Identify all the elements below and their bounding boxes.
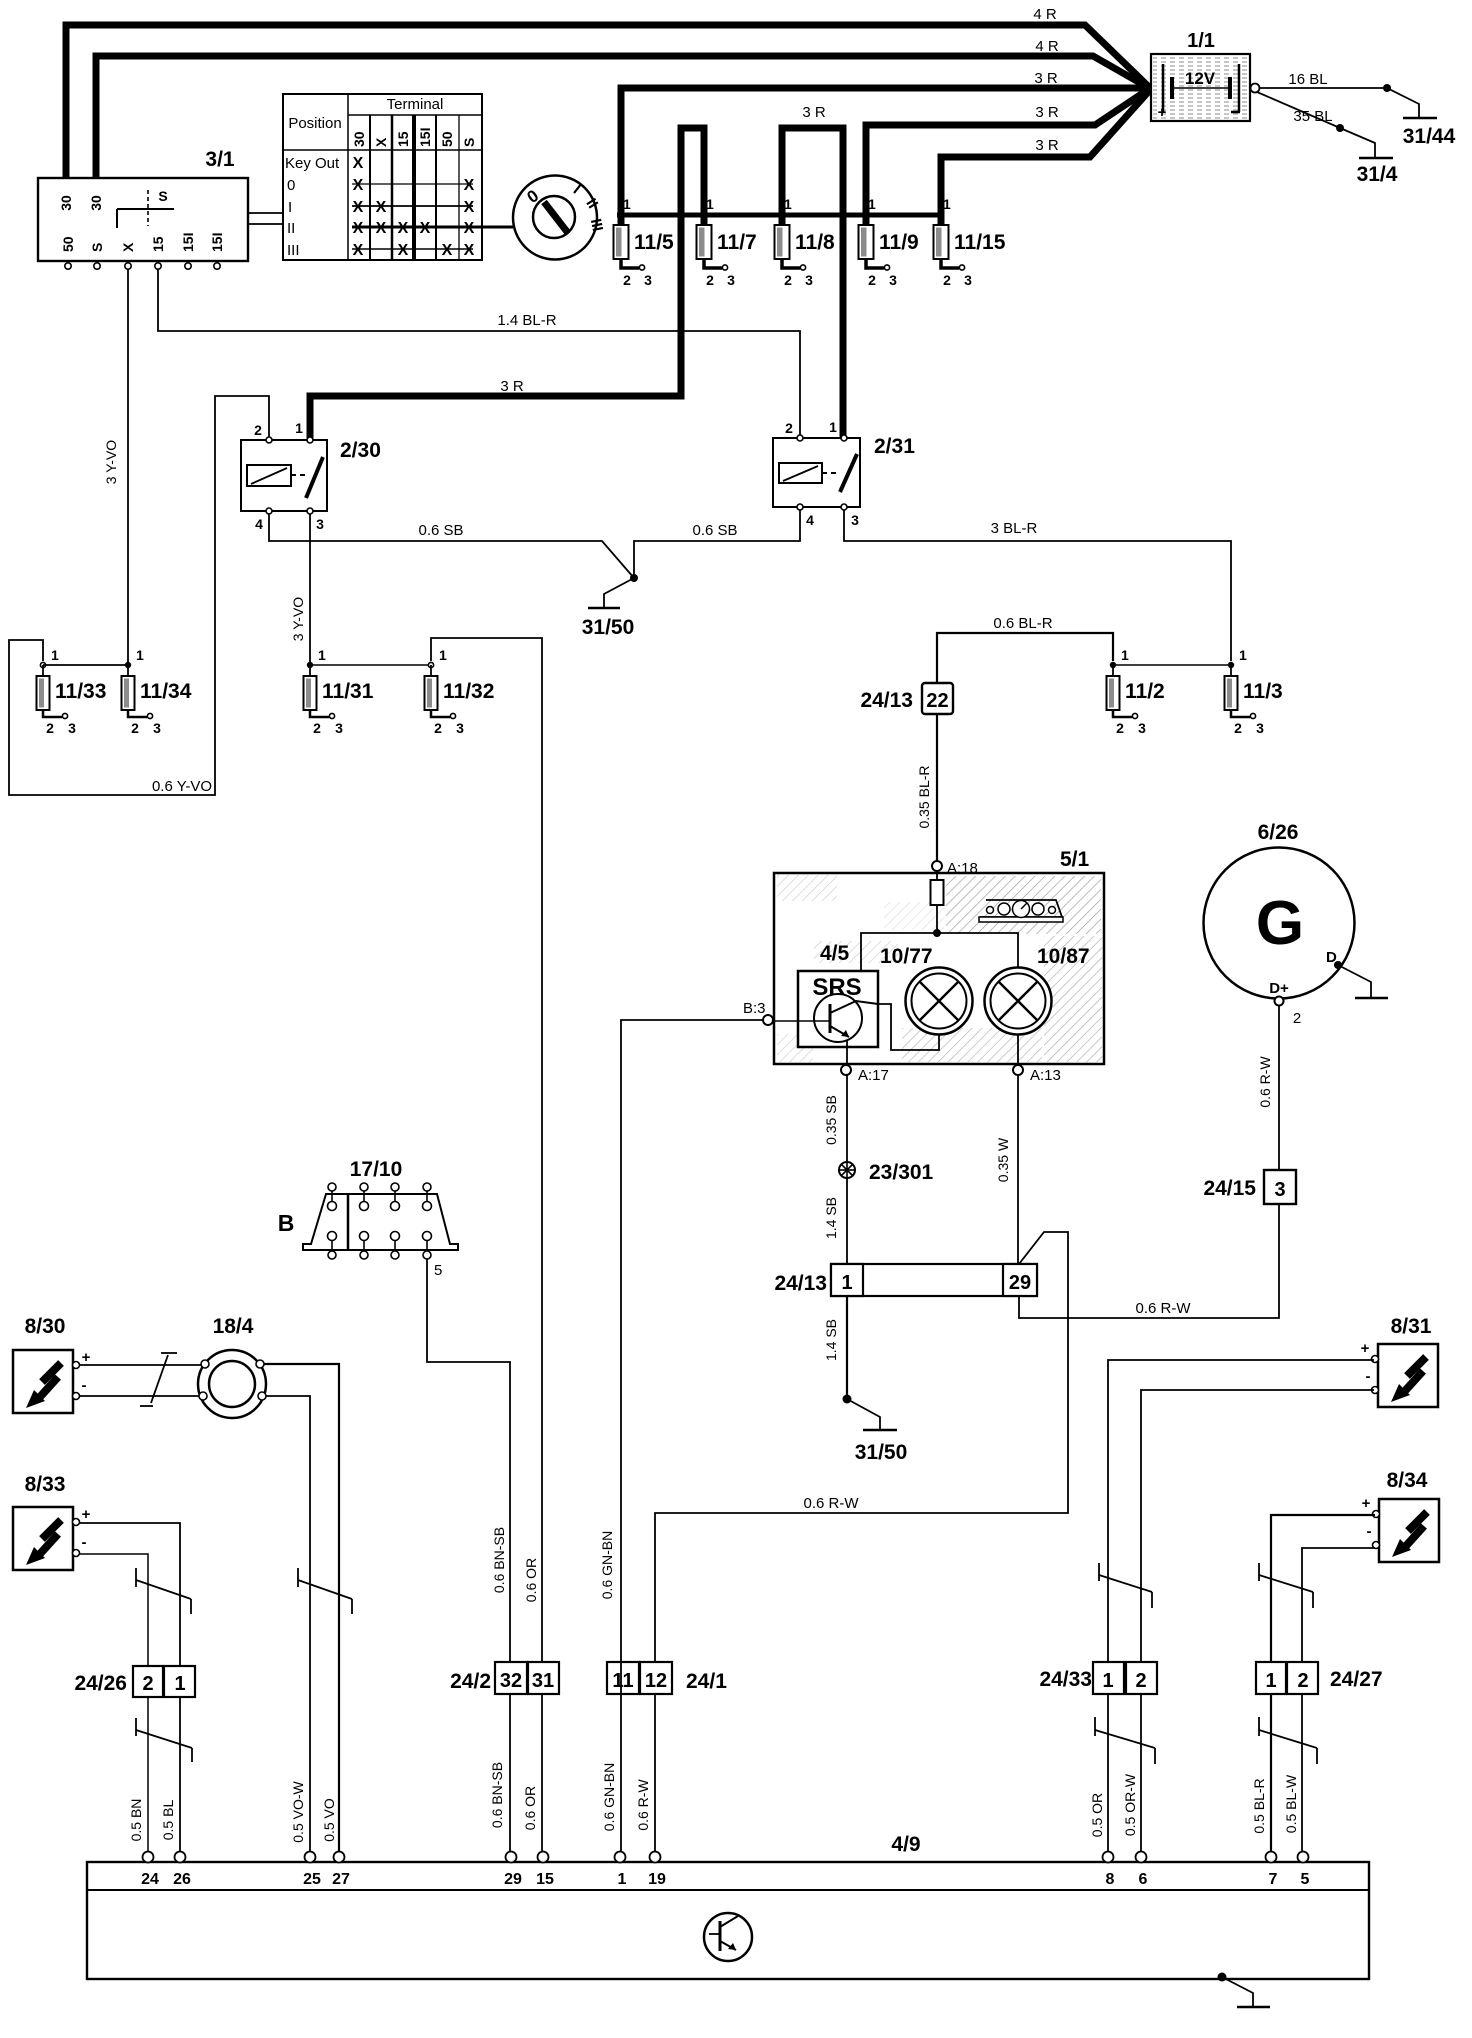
svg-text:1.4 BL-R: 1.4 BL-R (497, 312, 556, 329)
svg-text:X: X (464, 199, 475, 216)
svg-text:2: 2 (785, 420, 793, 436)
wire 1.4 BL-R from ignition terminal 15 to relay 2/31 pin 2 (158, 269, 800, 435)
wire from junction to lamp 10/87 (937, 933, 1018, 967)
pin 6 of 4/9 (1136, 1852, 1148, 1889)
flasher lamp 8/34 (1362, 1469, 1439, 1562)
generator 6/26 (1204, 821, 1355, 999)
svg-text:X: X (353, 177, 364, 194)
svg-text:1: 1 (136, 647, 144, 663)
node junction 35BL (1336, 124, 1344, 132)
svg-text:11/7: 11/7 (717, 231, 757, 254)
svg-text:3: 3 (1256, 720, 1264, 736)
svg-text:29: 29 (504, 1871, 522, 1888)
svg-text:2: 2 (313, 720, 321, 736)
wire joining fuse 11/2 pin1 and 11/3 pin1 (1113, 664, 1231, 666)
svg-text:24/13: 24/13 (774, 1272, 827, 1295)
svg-text:4/9: 4/9 (891, 1833, 920, 1856)
svg-text:X: X (353, 242, 364, 259)
svg-text:0.5 BL: 0.5 BL (160, 1800, 176, 1841)
svg-text:S: S (158, 188, 167, 204)
fuse 11/3 (1225, 647, 1283, 736)
wire 3 BL-R from relay 2/31 pin 3 to fuse 11/3 pin 1 (844, 510, 1231, 661)
wire 1.4 SB from splice 23/301 to connector 24/13 pin 1 (823, 1178, 847, 1264)
svg-text:31/50: 31/50 (582, 616, 635, 639)
ground 31/44 (1387, 88, 1456, 148)
motor 18/4 (siren) (198, 1315, 266, 1418)
ground at 4/9 (1222, 1977, 1270, 2007)
svg-text:0.5 BL-W: 0.5 BL-W (1283, 1774, 1299, 1833)
svg-text:24/27: 24/27 (1330, 1668, 1383, 1691)
svg-text:11/34: 11/34 (140, 680, 192, 703)
svg-text:3: 3 (851, 512, 859, 528)
svg-text:3 BL-R: 3 BL-R (991, 520, 1038, 537)
svg-text:G: G (1256, 889, 1304, 958)
svg-text:2: 2 (1135, 1670, 1146, 1692)
svg-text:3 Y-VO: 3 Y-VO (290, 597, 306, 641)
svg-text:3/1: 3/1 (205, 148, 235, 171)
svg-text:1: 1 (868, 196, 876, 212)
wire 0.35 W from A:13 to connector 24/13 pin 29 (995, 1075, 1018, 1264)
connector 24/1 (607, 1662, 727, 1694)
svg-text:0.5 BN: 0.5 BN (128, 1799, 144, 1842)
svg-text:19: 19 (648, 1871, 666, 1888)
harness crossing below 24/27 (1259, 1717, 1317, 1764)
wire 0.5 BN from 8/33 minus to connector 24/26 pin 2 (80, 1554, 148, 1856)
svg-text:11/8: 11/8 (795, 231, 835, 254)
svg-text:A:13: A:13 (1030, 1067, 1061, 1084)
harness crossing below 24/33 (1095, 1717, 1155, 1764)
wire 35 BL from battery to ground 31/4 (1257, 92, 1340, 128)
svg-text:3: 3 (644, 272, 652, 288)
lamp 10/77 (SRS warning) (880, 945, 973, 1035)
wire 0.6 SB from relay 2/31 pin 4 to ground 31/50 (634, 510, 800, 578)
flasher lamp 8/33 (13, 1473, 91, 1570)
svg-text:1: 1 (295, 420, 303, 436)
wire 0.6 R-W from connector 24/15 to connector 24/13 pin 29 (1019, 1204, 1279, 1318)
node junction 16BL (1383, 84, 1391, 92)
harness crossing below 24/26 (136, 1718, 192, 1762)
svg-text:X: X (376, 220, 387, 237)
svg-text:24/13: 24/13 (860, 689, 913, 712)
svg-text:1: 1 (943, 196, 951, 212)
fuse symbol inside cluster 5/1 (931, 871, 944, 933)
svg-text:6: 6 (1139, 1871, 1148, 1888)
svg-text:I: I (288, 199, 292, 216)
svg-text:11/15: 11/15 (954, 231, 1006, 254)
wire joining fuse 11/33 pin1 and 11/34 pin1 (43, 664, 128, 666)
svg-text:2: 2 (943, 272, 951, 288)
svg-text:D+: D+ (1269, 980, 1289, 997)
fuse 11/9 (859, 196, 919, 288)
svg-text:0.6 SB: 0.6 SB (692, 522, 737, 539)
svg-text:2: 2 (1293, 1010, 1301, 1027)
svg-text:2: 2 (254, 422, 262, 438)
svg-text:4: 4 (806, 512, 814, 528)
svg-text:1: 1 (1121, 647, 1129, 663)
wire 16 BL from battery to ground 31/44 (1260, 71, 1387, 88)
svg-text:0.6 GN-BN: 0.6 GN-BN (601, 1763, 617, 1831)
node junction above lamp 10/77 (933, 929, 941, 937)
svg-text:X: X (464, 220, 475, 237)
svg-text:-: - (1367, 1523, 1372, 1540)
svg-text:Position: Position (288, 115, 341, 132)
connector 24/33 (1039, 1662, 1157, 1694)
svg-text:15I: 15I (417, 128, 433, 147)
wire 4R from ignition 3/1 terminal 30 (right) to battery 1/1 (96, 38, 1149, 180)
fuse 11/33 (37, 647, 107, 736)
svg-text:7: 7 (1269, 1871, 1278, 1888)
svg-text:10/87: 10/87 (1037, 945, 1090, 968)
svg-text:1: 1 (1239, 647, 1247, 663)
wire 3R loop from fuse 11/8 to relay 2/31 pin 1 (782, 104, 843, 459)
svg-text:+: + (1362, 1495, 1371, 1512)
svg-text:24/33: 24/33 (1039, 1668, 1092, 1691)
svg-text:11/3: 11/3 (1243, 680, 1283, 703)
wire 0.6 Y-VO from fuse 11/33 pin 1 to relay 2/30 pin 2 (9, 396, 269, 795)
svg-text:4/5: 4/5 (820, 942, 850, 965)
svg-text:-: - (82, 1534, 87, 1551)
svg-text:11/31: 11/31 (322, 680, 374, 703)
pin A:18 of cluster 5/1 (932, 860, 978, 877)
svg-text:15I: 15I (180, 233, 196, 252)
svg-text:X: X (376, 199, 387, 216)
wire 0.6 R-W from generator D+ to connector 24/15 pin 3 (1257, 1006, 1279, 1170)
wire 0.35 BL-R from connector 24/13 pin 22 to cluster 5/1 pin A:18 (916, 714, 937, 861)
svg-text:3 R: 3 R (802, 104, 826, 121)
svg-text:0.6 BL-R: 0.6 BL-R (993, 615, 1052, 632)
svg-text:24/2: 24/2 (450, 1670, 491, 1693)
svg-text:3 R: 3 R (1035, 137, 1059, 154)
svg-text:32: 32 (500, 1670, 522, 1692)
svg-text:2: 2 (784, 272, 792, 288)
svg-text:+: + (82, 1349, 91, 1366)
svg-text:0.35 BL-R: 0.35 BL-R (916, 765, 932, 828)
svg-text:X: X (353, 220, 364, 237)
pin 7 of 4/9 (1266, 1852, 1278, 1889)
fuse 11/34 (122, 647, 192, 736)
svg-text:31: 31 (532, 1670, 554, 1692)
svg-text:2: 2 (434, 720, 442, 736)
svg-text:31/50: 31/50 (855, 1441, 908, 1464)
svg-text:1: 1 (829, 419, 837, 435)
harness crossing on 8/33 wires (136, 1568, 191, 1614)
svg-text:3: 3 (964, 272, 972, 288)
svg-text:11: 11 (612, 1670, 633, 1692)
connector 24/26 (74, 1666, 195, 1697)
svg-text:A:18: A:18 (947, 860, 978, 877)
pin 5 of 4/9 (1298, 1852, 1310, 1889)
svg-text:29: 29 (1009, 1272, 1031, 1294)
svg-text:X: X (464, 242, 475, 259)
svg-text:1: 1 (51, 647, 59, 663)
fuse 11/31 (304, 647, 374, 736)
pin A:17 of cluster 5/1 (841, 1040, 889, 1084)
connector 24/2 (450, 1662, 559, 1694)
svg-text:B: B (278, 1210, 295, 1236)
svg-text:3: 3 (889, 272, 897, 288)
svg-text:3: 3 (805, 272, 813, 288)
svg-text:3: 3 (456, 720, 464, 736)
wire from 8/30 plus to motor 18/4 (80, 1364, 205, 1366)
svg-text:12: 12 (645, 1670, 667, 1692)
svg-text:15: 15 (150, 236, 166, 252)
wire 4R from ignition 3/1 terminal 30 (left) to battery 1/1 (66, 6, 1149, 180)
connector 24/15 pin 3 (1203, 1170, 1296, 1204)
svg-text:0.6 OR: 0.6 OR (523, 1558, 539, 1602)
SRS control unit 4/5 (772, 942, 878, 1047)
pin 29 of 4/9 (504, 1852, 522, 1889)
svg-text:16 BL: 16 BL (1288, 71, 1327, 88)
relay 2/30 (241, 420, 381, 532)
mini gauge icon inside cluster 5/1 (979, 900, 1063, 922)
wire 3 Y-VO from relay 2/30 pin 3 to fuse 11/31 pin 1 (290, 514, 310, 665)
svg-text:2: 2 (1297, 1670, 1308, 1692)
svg-text:0.5 VO-W: 0.5 VO-W (290, 1780, 306, 1842)
svg-text:4 R: 4 R (1035, 38, 1059, 55)
svg-text:1: 1 (1102, 1670, 1113, 1692)
node junction on 4/9 bottom edge (1218, 1973, 1227, 1982)
svg-text:1: 1 (623, 196, 631, 212)
wire 0.5 OR-W from 8/31 minus to connector 24/33 pin 2 (1141, 1390, 1374, 1856)
relay 2/31 (773, 419, 915, 528)
wire 3R from battery 1/1 to fuse 11/9 (866, 89, 1149, 227)
flasher lamp 8/31 (1361, 1315, 1438, 1407)
svg-text:4 R: 4 R (1033, 6, 1057, 23)
svg-text:3: 3 (1138, 720, 1146, 736)
wire 0.6 OR from fuse 11/32 pin 1 to connector 24/2 pin 31 (431, 638, 542, 1856)
svg-text:0.6 R-W: 0.6 R-W (1257, 1056, 1273, 1108)
ignition key symbol (513, 176, 606, 260)
svg-text:1.4 SB: 1.4 SB (823, 1319, 839, 1361)
svg-text:0.5 OR: 0.5 OR (1089, 1793, 1105, 1837)
svg-text:15: 15 (536, 1871, 554, 1888)
svg-text:15: 15 (395, 131, 411, 147)
svg-text:2: 2 (1116, 720, 1124, 736)
fuse 11/7 (697, 196, 757, 288)
svg-text:5: 5 (1301, 1871, 1310, 1888)
svg-text:Terminal: Terminal (387, 96, 444, 113)
harness crossing on 8/34 wires (1259, 1563, 1313, 1608)
svg-text:0: 0 (287, 177, 295, 194)
connector 17/10 (B) (278, 1158, 458, 1259)
svg-text:0.5 OR-W: 0.5 OR-W (1122, 1773, 1138, 1836)
ignition switch 3/1 (38, 148, 248, 269)
wire 0.5 VO from motor 18/4 to 4/9 pin 27 (264, 1364, 339, 1856)
wire 0.35 SB from A:17 to splice 23/301 (823, 1075, 847, 1162)
wire 0.5 VO-W from motor 18/4 to 4/9 pin 25 (266, 1396, 310, 1856)
svg-text:5: 5 (434, 1262, 442, 1279)
svg-text:0.5 VO: 0.5 VO (321, 1798, 337, 1842)
svg-text:6/26: 6/26 (1258, 821, 1299, 844)
pin 27 of 4/9 (332, 1852, 350, 1889)
wire 3R from battery 1/1 to fuse 11/5 (621, 70, 1150, 227)
svg-text:11/9: 11/9 (879, 231, 919, 254)
svg-text:3 R: 3 R (500, 378, 524, 395)
wire 0.6 SB from relay 2/30 pin 4 to ground 31/50 (269, 514, 634, 578)
connector 24/13 pins 1 and 29 (774, 1264, 1037, 1296)
svg-text:25: 25 (303, 1871, 321, 1888)
ground 31/50 (upper) (582, 578, 635, 639)
svg-text:X: X (373, 137, 389, 147)
svg-text:10/77: 10/77 (880, 945, 933, 968)
node junction at lower ground 31/50 (843, 1395, 852, 1404)
svg-text:3 R: 3 R (1035, 104, 1059, 121)
svg-text:5/1: 5/1 (1060, 848, 1090, 871)
svg-text:50: 50 (439, 131, 455, 147)
svg-text:30: 30 (351, 131, 367, 147)
svg-text:8/30: 8/30 (25, 1315, 66, 1338)
wire from 8/30 minus to motor 18/4 (80, 1395, 203, 1397)
svg-text:30: 30 (88, 195, 104, 211)
svg-text:X: X (464, 177, 475, 194)
wire 0.5 OR from 8/31 plus to connector 24/33 pin 1 (1108, 1360, 1374, 1856)
svg-text:2: 2 (142, 1673, 153, 1695)
svg-text:1/1: 1/1 (1187, 30, 1215, 52)
svg-text:1: 1 (439, 647, 447, 663)
wire 3 Y-VO from ignition terminal X to fuse 11/34 pin 1 (103, 269, 128, 665)
wire 0.6 R-W from connector 24/13 pin 29 to connector 24/1 pin 12 (655, 1232, 1068, 1662)
svg-text:2: 2 (868, 272, 876, 288)
svg-text:1: 1 (618, 1871, 627, 1888)
wire 0.5 BL from 8/33 plus to connector 24/26 pin 1 (80, 1523, 180, 1856)
fuse 11/15 (934, 196, 1006, 288)
svg-text:8/33: 8/33 (25, 1473, 66, 1496)
svg-text:0.6 R-W: 0.6 R-W (635, 1779, 651, 1831)
svg-text:+: + (1158, 104, 1167, 121)
fuse 11/8 (775, 196, 836, 288)
connector 24/27 (1256, 1662, 1383, 1694)
splice 23/301 (839, 1161, 934, 1184)
svg-text:2: 2 (623, 272, 631, 288)
svg-text:11/2: 11/2 (1125, 680, 1165, 703)
svg-text:8/34: 8/34 (1387, 1469, 1428, 1492)
node junction at ground 31/50 (630, 574, 638, 582)
svg-text:17/10: 17/10 (350, 1158, 403, 1181)
svg-text:-: - (82, 1377, 87, 1394)
wire from junction to SRS unit 4/5 (861, 933, 937, 970)
svg-text:X: X (442, 242, 453, 259)
svg-text:1: 1 (1265, 1670, 1276, 1692)
svg-text:3: 3 (727, 272, 735, 288)
svg-text:0.5 BL-R: 0.5 BL-R (1251, 1778, 1267, 1833)
svg-text:2: 2 (46, 720, 54, 736)
lamp 10/87 (985, 945, 1090, 1035)
svg-text:31/4: 31/4 (1357, 163, 1398, 186)
svg-text:11/5: 11/5 (634, 231, 674, 254)
svg-text:0.6 BN-SB: 0.6 BN-SB (489, 1762, 505, 1828)
svg-text:S: S (461, 138, 477, 147)
svg-text:2: 2 (1234, 720, 1242, 736)
svg-text:0.6 R-W: 0.6 R-W (803, 1495, 859, 1512)
pin 8 of 4/9 (1103, 1852, 1115, 1889)
svg-text:X: X (398, 220, 409, 237)
flasher lamp 8/30 (13, 1315, 91, 1413)
wire 0.5 BL-W from 8/34 minus to connector 24/27 pin 2 (1302, 1548, 1375, 1856)
svg-text:+: + (1361, 1340, 1370, 1357)
svg-text:1: 1 (174, 1673, 185, 1695)
ground 31/4 (1340, 128, 1398, 186)
pin B:3 of SRS unit (743, 1000, 773, 1025)
svg-text:30: 30 (58, 195, 74, 211)
svg-text:3: 3 (153, 720, 161, 736)
pin D+ of generator (1269, 980, 1301, 1027)
svg-text:1: 1 (784, 196, 792, 212)
svg-text:26: 26 (173, 1871, 191, 1888)
svg-text:0.35 SB: 0.35 SB (823, 1095, 839, 1145)
svg-text:24/15: 24/15 (1203, 1177, 1256, 1200)
svg-text:3: 3 (316, 516, 324, 532)
pin 19 of 4/9 (648, 1852, 666, 1889)
harness crossing on motor wires (298, 1568, 352, 1614)
svg-text:1: 1 (318, 647, 326, 663)
svg-text:24/1: 24/1 (686, 1670, 727, 1693)
svg-text:3: 3 (68, 720, 76, 736)
svg-text:Key Out: Key Out (285, 155, 340, 172)
wire joining fuse 11/31 pin1 and 11/32 pin1 (310, 664, 431, 666)
svg-text:X: X (120, 242, 136, 252)
svg-text:3: 3 (335, 720, 343, 736)
pin 15 of 4/9 (536, 1852, 554, 1889)
svg-text:24: 24 (141, 1871, 159, 1888)
svg-text:0.35 W: 0.35 W (995, 1137, 1011, 1182)
svg-text:+: + (82, 1506, 91, 1523)
svg-text:3: 3 (1274, 1179, 1285, 1201)
battery 1/1 12V (1151, 30, 1260, 121)
svg-text:24/26: 24/26 (74, 1672, 127, 1695)
svg-text:3 Y-VO: 3 Y-VO (103, 440, 119, 484)
svg-text:-: - (1366, 1368, 1371, 1385)
wire 0.6 R-W below connector 24/1 pin 12 (635, 1694, 655, 1856)
fuse 11/32 (425, 647, 495, 736)
svg-text:50: 50 (60, 236, 76, 252)
harness crossing on 8/31 wires (1099, 1563, 1152, 1608)
svg-text:0.6 R-W: 0.6 R-W (1135, 1300, 1191, 1317)
terminal D- of generator (1326, 949, 1342, 969)
svg-text:35 BL: 35 BL (1293, 108, 1332, 125)
svg-text:11/33: 11/33 (55, 680, 106, 703)
svg-text:X: X (353, 199, 364, 216)
svg-text:II: II (287, 220, 295, 237)
wire 3R from battery 1/1 to fuse 11/15 (941, 91, 1149, 227)
svg-text:23/301: 23/301 (869, 1161, 934, 1184)
wire 0.5 BL-R from 8/34 plus to connector 24/27 pin 1 (1271, 1515, 1375, 1856)
svg-text:III: III (287, 242, 300, 259)
svg-text:1: 1 (841, 1272, 852, 1294)
wire 0.6 BL-R from fuse 11/2 pin 1 to connector 24/13 pin 22 (937, 615, 1113, 683)
wire 0.6 GN-BN from SRS pin B:3 to connector 24/1 pin 11 (599, 1020, 763, 1856)
svg-text:2/30: 2/30 (340, 439, 381, 462)
wire 3R loop from fuse 11/7 to relay 2/30 pin 1 (310, 128, 704, 442)
connector 24/13 pin 22 (860, 683, 953, 714)
svg-text:3 R: 3 R (1034, 70, 1058, 87)
svg-text:B:3: B:3 (743, 1000, 766, 1017)
pin 24 of 4/9 (141, 1852, 159, 1889)
wire 1.4 SB from connector 24/13 pin 1 to ground 31/50 (823, 1296, 847, 1399)
svg-text:4: 4 (255, 516, 263, 532)
ignition position-terminal table (283, 94, 513, 260)
svg-text:1.4 SB: 1.4 SB (823, 1197, 839, 1239)
harness crossing between 8/30 and 18/4 (140, 1353, 177, 1406)
wire links ignition 3/1 to position table (248, 212, 283, 214)
svg-text:0.6 GN-BN: 0.6 GN-BN (599, 1531, 615, 1599)
svg-text:27: 27 (332, 1871, 350, 1888)
svg-text:18/4: 18/4 (213, 1315, 254, 1338)
svg-text:22: 22 (926, 690, 948, 712)
transistor symbol inside 4/9 (704, 1913, 752, 1961)
svg-text:31/44: 31/44 (1403, 125, 1456, 148)
svg-text:2: 2 (706, 272, 714, 288)
fuse 11/2 (1107, 647, 1165, 736)
